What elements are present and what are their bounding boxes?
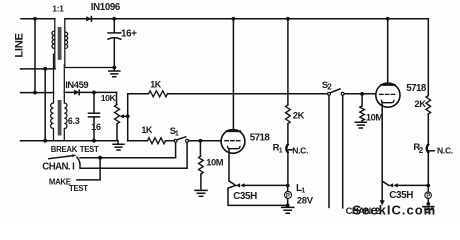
node rail-V2-plate junction [386,17,390,21]
ground below 10M left [195,190,207,196]
node cap16-bottom junction [92,139,96,143]
node wiper junction [126,114,130,118]
lamp L2 [425,186,432,204]
switch CHAN1 hook [77,157,80,168]
label IN459 [65,79,88,90]
ground below L1 [282,207,294,213]
ground below 10K pot [113,141,124,150]
wire wiper riser [127,94,129,141]
resistor 2K right [426,96,431,145]
tube V1 cathode [228,146,241,148]
label 2K left [293,110,305,121]
node secondary-cap junction [112,66,116,70]
transformer T1 secondary winding [65,19,115,68]
node bus1-stub junction [33,91,37,95]
node rail-V1-plate junction [232,17,236,21]
tube V2 plate lead [387,19,389,85]
potentiometer 10K [115,92,120,140]
node rail-filter-cap junction [112,17,116,21]
svg-text:2K: 2K [414,98,426,109]
wire line stub lower [21,92,54,94]
svg-text:C35H: C35H [389,190,413,201]
svg-text:16+: 16+ [121,29,137,40]
switch S2 blade [330,89,340,93]
label S1 [170,125,179,137]
wire break-test row [80,142,176,157]
wire chan1 row [80,142,187,168]
label R2 [413,141,423,155]
svg-text:CHAN. I: CHAN. I [42,161,75,172]
wire 1K row [128,93,328,95]
capacitor 16uF B+ filter lead [113,19,115,33]
node bus2-primary junction [43,67,47,71]
wire relay row left [245,184,288,186]
svg-text:6.3: 6.3 [68,116,80,126]
ground below 16uF filter cap [109,68,120,77]
switch CHAN1 blade [49,154,77,159]
label 28V [297,196,314,207]
label IN1096 [91,2,121,13]
svg-text:1K: 1K [150,79,162,89]
svg-text:C35H: C35H [233,191,257,202]
svg-text:5718: 5718 [406,83,427,94]
thermal relay C35H right heater lead [382,181,389,185]
transformer T1 core [58,27,62,60]
label 6.3 [68,116,80,126]
wire S2 right drop [342,95,344,208]
diode IN459 [74,89,79,95]
wire grid row V2 [344,93,376,95]
thermal relay C35H left heater lead [229,181,236,186]
wire grid row V1 [128,140,221,142]
tube V2 cathode lead [381,103,383,181]
capacitor 16uF heater filter [89,92,100,140]
tube V1 envelope [221,130,245,154]
node relay-lamp junction right [426,184,430,188]
lamp L1 [285,186,292,206]
wire heater rectifier row [64,91,116,93]
resistor 10M left [199,141,204,190]
ground below L2 [423,207,434,213]
node rail-2K-left junction [286,17,290,21]
svg-text:2: 2 [419,146,424,155]
transformer T2 primary winding [51,54,54,141]
node lamp bottom junction left [286,204,290,208]
svg-text:TEST: TEST [80,145,99,154]
svg-text:10K: 10K [101,93,117,103]
svg-text:2K: 2K [293,110,305,121]
svg-text:N.C.: N.C. [437,146,453,156]
wire B+ rail right drop to 2K [427,19,429,96]
node bus2-bottom junction [43,139,47,143]
label S2 [322,79,332,92]
label 5718 left [250,133,271,144]
svg-text:IN1096: IN1096 [91,2,121,13]
label LINE [13,32,25,57]
label TEST lower [69,184,88,193]
wire B+ rail left segment [21,18,55,20]
svg-text:1: 1 [175,131,179,138]
transformer T1 primary winding [52,19,55,69]
thermal relay C35H left body [228,185,288,205]
switch S1 contacts [174,139,189,142]
relay contact R2 [427,144,429,186]
wire line stub upper [21,68,56,70]
label 5718 right [406,83,427,94]
tube V2 plate [381,84,395,86]
label C35H right [389,190,413,201]
relay contact R1 [286,144,288,186]
wire B+ rail main segment [65,18,428,20]
svg-text:LINE: LINE [13,32,25,57]
svg-text:10M: 10M [206,157,223,168]
svg-text:1: 1 [301,188,305,195]
capacitor 16uF B+ filter [108,33,121,68]
svg-text:2: 2 [327,83,332,92]
diode IN1096 [86,16,91,22]
label 1K lower [141,125,153,135]
ground below 10M right [355,121,366,128]
thermal relay C35H right contact arrows [389,183,398,187]
label 1K upper [150,79,162,89]
svg-text:SeekIC.com: SeekIC.com [353,203,437,218]
label 16 [91,122,101,132]
wire bottom line rail [21,140,118,142]
label CHAN. 1 [42,161,75,172]
tube V1 cathode lead [228,149,230,181]
label C35H left [233,191,257,202]
svg-text:1K: 1K [141,125,153,135]
svg-text:1: 1 [279,148,283,155]
label L1 [296,183,305,194]
potentiometer 10K wiper arrow [120,114,128,118]
label MAKE [49,178,71,187]
wire line bus 2 [44,69,46,141]
resistor 1K upper [149,91,168,97]
watermark SeekIC.com [353,203,437,218]
label 1:1 ratio [52,5,64,14]
transformer T2 secondary winding [64,64,67,140]
node make-stub junction [98,156,102,160]
svg-text:28V: 28V [297,196,314,207]
label N.C. left [289,146,309,156]
resistor 10M right [360,94,365,121]
tube V2 envelope [376,83,400,107]
thermal relay C35H left contact arrows [236,183,245,187]
node rail-bus1 junction [33,17,37,21]
label 10K [101,93,117,103]
resistor 2K left [286,19,291,144]
svg-text:BREAK: BREAK [51,145,78,154]
label 10M right [366,111,383,122]
tube V1 plate lead [232,19,234,131]
svg-text:MAKE: MAKE [49,178,71,187]
switch S2 contacts [328,92,345,95]
label R1 [273,142,283,155]
svg-text:5718: 5718 [250,133,271,144]
tube V2 cathode [381,100,394,102]
label 2K right [414,98,426,109]
wire S2 left drop [328,95,330,207]
transformer T2 core [58,100,62,136]
label N.C. right [429,146,453,156]
svg-text:16: 16 [91,122,101,132]
label 16+ [121,29,137,40]
node cap16-row junction [92,91,96,95]
svg-text:TEST: TEST [69,184,88,193]
switch S1 blade [177,137,186,140]
svg-text:1:1: 1:1 [52,5,64,14]
wire chan2 pointer [380,181,385,206]
wire line bus 1 [34,19,36,93]
label BREAK TEST [51,145,99,154]
wire make-test stub [77,158,100,180]
svg-text:10M: 10M [366,111,383,122]
node grid-10M junction right [360,92,364,96]
tube V2 grid [380,93,395,95]
node relay-lamp junction left [286,184,290,188]
node lamp bottom junction right [426,202,430,206]
label CHAN. 2 [346,205,380,216]
svg-text:IN459: IN459 [65,79,88,90]
wire relay row right [398,184,429,186]
node grid-10M junction [199,139,203,143]
resistor 1K lower [148,138,166,144]
tube V1 grid [225,140,240,142]
label 10M left [206,157,223,168]
svg-text:N.C.: N.C. [292,146,308,156]
tube V1 plate [227,130,240,132]
